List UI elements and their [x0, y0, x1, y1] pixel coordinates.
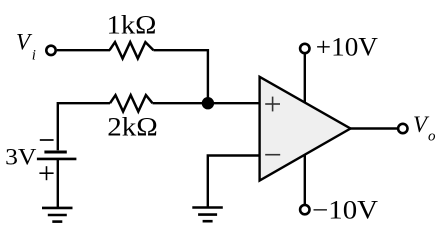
wire op-amp minus input to middle ground (elbow) [208, 156, 259, 208]
svg-text:1kΩ: 1kΩ [107, 10, 157, 39]
resistor R2 [110, 95, 153, 111]
node Vi label [16, 30, 36, 64]
wire −10V supply from op-amp bottom edge [304, 155, 306, 204]
node Vo label [413, 112, 436, 145]
battery plus sign [39, 166, 53, 180]
wire op-amp output to Vo terminal [351, 127, 398, 129]
battery minus sign [40, 139, 54, 141]
wire battery top to R2 (elbow) [58, 103, 110, 150]
svg-text:−10V: −10V [312, 196, 378, 225]
wire R2 to op-amp + input [153, 102, 260, 104]
svg-text:o: o [428, 129, 436, 145]
ground (middle) [192, 208, 223, 222]
wire Vi to R1 [57, 49, 110, 51]
op-amp U1 [260, 77, 351, 181]
svg-text:2kΩ: 2kΩ [107, 113, 158, 142]
terminal Vo [398, 124, 407, 133]
terminal −10V [300, 205, 309, 214]
svg-text:+10V: +10V [316, 32, 378, 61]
op-amp − input marker [265, 154, 280, 156]
svg-text:3V: 3V [5, 145, 37, 170]
svg-text:i: i [32, 48, 36, 64]
op-amp + input marker [265, 97, 280, 112]
wire battery to left ground [57, 159, 59, 208]
resistor R1 [110, 42, 154, 58]
battery V1 short plate (negative) [44, 150, 66, 153]
wire +10V supply to op-amp top edge [304, 54, 306, 103]
junction node [202, 97, 214, 109]
wire R1 to junction (elbow) [154, 50, 208, 103]
ground (left) [42, 208, 73, 222]
terminal +10V [300, 44, 309, 53]
terminal Vi [46, 46, 55, 55]
battery V1 long plate (positive) [37, 158, 77, 161]
